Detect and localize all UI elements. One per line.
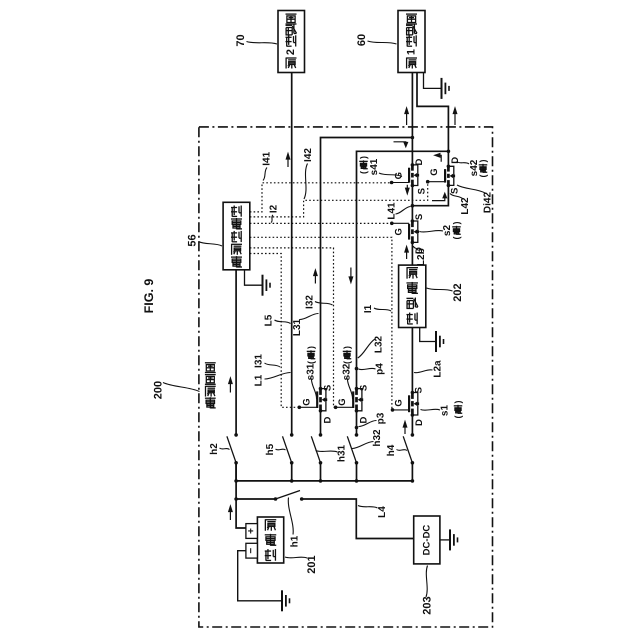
current arrow up beside I31 wire xyxy=(314,272,316,284)
wire switch h2 to main power plus terminal xyxy=(236,463,246,528)
wire L2a from auxiliary power to s1 xyxy=(411,328,413,393)
svg-text:L32: L32 xyxy=(374,335,385,353)
plus terminal of main power xyxy=(246,524,258,539)
wire s42 drain segment xyxy=(447,151,449,166)
control line I41 dotted xyxy=(250,183,392,212)
svg-text:h1: h1 xyxy=(290,535,301,547)
ground at auxiliary power supply xyxy=(420,328,436,342)
svg-text:p4: p4 xyxy=(375,363,386,375)
current arrow up beside wire L5 xyxy=(287,155,289,167)
svg-text:+: + xyxy=(246,528,257,534)
transistor s41 xyxy=(390,163,419,187)
svg-text:p3: p3 xyxy=(376,412,387,424)
leader Di42 xyxy=(457,185,485,193)
svg-text:I42: I42 xyxy=(303,148,314,162)
svg-text:s31: s31 xyxy=(306,363,317,380)
dash-dot border of power supply device 200 xyxy=(199,127,493,627)
svg-text:200: 200 xyxy=(153,381,165,399)
leader s42 xyxy=(457,162,470,165)
current arrow down on s41 source wire xyxy=(406,185,408,192)
wires switch bottoms to bus xyxy=(235,463,237,481)
svg-text:): ) xyxy=(452,222,462,225)
leader h5 xyxy=(276,449,286,450)
label s32 (閉) xyxy=(342,346,353,380)
box 60 first braking unit 第1制動部 xyxy=(398,11,425,73)
svg-text:70: 70 xyxy=(235,34,247,46)
transistor s42 xyxy=(426,165,455,188)
svg-text:(: ( xyxy=(478,175,488,178)
leader h31 xyxy=(316,451,338,453)
leader L41 xyxy=(396,207,411,215)
leader h32 xyxy=(352,442,374,449)
current arrow up on s1 drain wire xyxy=(404,423,406,434)
label s41 (閉) xyxy=(359,156,381,175)
svg-text:L2b: L2b xyxy=(416,248,427,266)
svg-text:Di42: Di42 xyxy=(483,192,494,214)
leader p3 xyxy=(359,420,377,426)
wire A from box 60 (drain feed of s41) xyxy=(411,73,413,165)
leader L2a xyxy=(414,370,433,373)
svg-text:FIG. 9: FIG. 9 xyxy=(142,279,156,314)
leader 70 xyxy=(247,42,278,45)
svg-text:I2: I2 xyxy=(269,204,280,213)
ground at DC-DC xyxy=(440,539,450,541)
svg-text:S: S xyxy=(414,214,425,220)
svg-text:L1: L1 xyxy=(254,374,265,386)
svg-text:): ) xyxy=(453,401,463,404)
wire L2b from s2 drain to auxiliary power supply xyxy=(411,242,413,265)
leader h1 xyxy=(288,498,293,535)
svg-text:I32: I32 xyxy=(305,295,316,309)
junction dot at wire A / y137 xyxy=(411,136,415,140)
wire s31 drain to switch h31 xyxy=(320,411,322,435)
svg-text:S: S xyxy=(416,188,427,194)
wire from box 56 bottom to switch h2 xyxy=(235,270,237,435)
svg-text:I41: I41 xyxy=(262,151,273,165)
ground at box 60 xyxy=(424,73,442,89)
leader s1 xyxy=(421,408,441,411)
svg-text:G: G xyxy=(394,399,405,406)
svg-text:S: S xyxy=(359,385,370,391)
label s2 (閉) xyxy=(442,222,462,240)
current arrow up on wire L2b xyxy=(406,248,408,259)
current arrow up on main power + wire xyxy=(229,508,231,521)
svg-text:G: G xyxy=(394,228,405,235)
leader s41 xyxy=(379,173,402,177)
svg-text:h32: h32 xyxy=(372,429,383,447)
leader L4 xyxy=(358,506,378,509)
leader s31 xyxy=(311,379,316,400)
svg-text:h31: h31 xyxy=(337,444,348,462)
label s31 (閉) xyxy=(306,346,317,380)
transistor s2 xyxy=(390,219,419,244)
svg-text:I1: I1 xyxy=(363,304,374,313)
wire minus terminal to ground xyxy=(238,551,282,601)
leader 202 xyxy=(427,288,453,291)
svg-text:L42: L42 xyxy=(460,197,471,215)
current arrow up on wire B xyxy=(454,110,456,126)
wire main power line to switch h1 xyxy=(236,498,275,500)
ground at box 56 xyxy=(245,270,263,285)
text 電源装置 (power supply device) xyxy=(205,363,216,409)
svg-text:D: D xyxy=(322,417,333,424)
node p4 dot on s32 wire xyxy=(355,367,359,371)
switch h4 xyxy=(403,433,414,465)
wire B from box 60 to s42 drain xyxy=(417,73,448,152)
svg-text:S: S xyxy=(322,385,333,391)
leader I2 xyxy=(271,215,273,223)
control line I1 dotted xyxy=(250,237,392,410)
wire node L41 to s2 source xyxy=(411,206,413,221)
leader I32 xyxy=(315,302,333,306)
svg-text:2: 2 xyxy=(285,49,297,55)
svg-text:D: D xyxy=(359,417,370,424)
svg-text:): ) xyxy=(342,346,352,349)
wire node L41 to s42 source xyxy=(412,185,448,205)
transistor s1 xyxy=(391,391,419,417)
wire from node 356.5 top to s42 drain junction xyxy=(357,151,449,388)
svg-text:S: S xyxy=(450,188,461,194)
svg-text:56: 56 xyxy=(187,234,199,246)
svg-text:): ) xyxy=(306,346,316,349)
box 201 main power supply 主電源 xyxy=(257,517,283,563)
svg-text:h2: h2 xyxy=(209,443,220,455)
svg-text:1: 1 xyxy=(406,49,418,55)
leader 200 xyxy=(163,383,200,392)
switch h2 xyxy=(227,433,238,465)
bus line connecting switch bottoms xyxy=(236,480,412,482)
leader L2b xyxy=(413,246,418,251)
svg-text:L31: L31 xyxy=(292,318,303,336)
control line I42 dotted xyxy=(250,182,428,217)
svg-text:203: 203 xyxy=(422,596,434,614)
wire s41 source down to node L41 xyxy=(411,186,413,206)
current L-arrow down into s41 drain xyxy=(394,142,406,144)
wire s1 drain to switch h4 xyxy=(411,415,413,435)
box 202 auxiliary power supply 補助電源 xyxy=(399,265,426,327)
junction dot at s42 drain feed xyxy=(447,150,451,154)
box 203 DC-DC converter xyxy=(414,516,440,564)
leader s32 xyxy=(347,379,352,400)
leader L31 xyxy=(300,313,319,319)
control line I2 dotted xyxy=(250,222,392,224)
wire L5 from box 70 down to switch h5 xyxy=(291,73,293,435)
svg-text:201: 201 xyxy=(306,555,318,573)
leader I31 xyxy=(265,363,281,367)
leader L32 xyxy=(358,339,375,358)
leader h2 xyxy=(220,448,230,450)
svg-text:DC-DC: DC-DC xyxy=(421,525,432,556)
ground at main power xyxy=(281,590,283,611)
svg-text:h5: h5 xyxy=(265,443,276,455)
svg-text:h4: h4 xyxy=(386,444,397,456)
svg-text:s2: s2 xyxy=(442,225,453,237)
current L-arrow left at s42 drain xyxy=(440,155,442,162)
transistor s32 xyxy=(334,387,363,413)
minus terminal of main power xyxy=(246,543,258,558)
svg-text:(: ( xyxy=(452,237,462,240)
svg-text:G: G xyxy=(429,168,440,175)
leader L5 xyxy=(275,320,291,324)
svg-text:): ) xyxy=(478,160,488,163)
svg-text:G: G xyxy=(301,398,312,405)
svg-text:(: ( xyxy=(453,416,463,419)
svg-text:s32: s32 xyxy=(342,363,353,380)
current arrow up on wire A xyxy=(406,110,408,126)
svg-text:G: G xyxy=(337,398,348,405)
switch h5 xyxy=(283,433,294,465)
box 56 power control unit 電源制御部 xyxy=(223,202,250,269)
wire from node 320.5 top to wire A junction xyxy=(321,138,413,389)
leader 203 xyxy=(426,566,428,598)
svg-text:−: − xyxy=(246,548,257,554)
leader L1 xyxy=(265,372,291,379)
leader 60 xyxy=(368,41,397,44)
svg-text:60: 60 xyxy=(356,34,368,46)
bus junction dots xyxy=(234,479,238,483)
switch h1 xyxy=(274,491,304,501)
svg-text:L4: L4 xyxy=(377,506,388,518)
node L41 junction dot xyxy=(411,204,415,208)
junction dot h1 line left end xyxy=(234,497,238,501)
svg-text:S: S xyxy=(414,387,425,393)
switch h32 xyxy=(347,433,358,465)
leader 201 xyxy=(285,557,307,558)
node p3 dot on s32 drain wire xyxy=(355,426,359,430)
current arrow down beside I32 wire xyxy=(350,268,352,282)
label s42 (閉) xyxy=(469,159,488,177)
svg-text:I31: I31 xyxy=(254,354,265,368)
current arrow up near s42 source xyxy=(432,198,445,201)
leader p4 xyxy=(359,368,376,369)
leader I42 xyxy=(304,164,308,200)
leader L42 xyxy=(450,194,463,200)
current arrow up on wire h2 upper xyxy=(229,380,231,393)
wire L4 from switch h1 to DC-DC xyxy=(302,499,414,539)
transistor s31 xyxy=(298,387,328,413)
leader s2 xyxy=(420,230,444,232)
control line I32 dotted xyxy=(250,248,336,407)
switch h31 xyxy=(311,433,322,465)
svg-text:s41: s41 xyxy=(369,158,380,175)
svg-text:L2a: L2a xyxy=(433,360,444,378)
label s1 (閉) xyxy=(440,401,464,419)
box 70 second braking unit 第2制動部 xyxy=(278,11,305,73)
leader h4 xyxy=(397,450,408,451)
svg-text:(: ( xyxy=(359,171,369,174)
svg-text:s1: s1 xyxy=(440,405,451,417)
leader I41 xyxy=(263,168,267,181)
svg-text:D: D xyxy=(414,419,425,426)
svg-text:): ) xyxy=(359,156,369,159)
svg-text:(: ( xyxy=(342,361,352,364)
svg-text:(: ( xyxy=(306,361,316,364)
control line I31 dotted xyxy=(250,254,299,408)
svg-text:202: 202 xyxy=(452,283,464,301)
leader I1 xyxy=(374,308,391,311)
wire s32 drain to switch h32 xyxy=(356,411,358,435)
leader 56 xyxy=(199,242,223,247)
svg-text:L5: L5 xyxy=(264,314,275,326)
svg-text:L41: L41 xyxy=(387,202,398,220)
svg-text:D: D xyxy=(414,158,425,165)
